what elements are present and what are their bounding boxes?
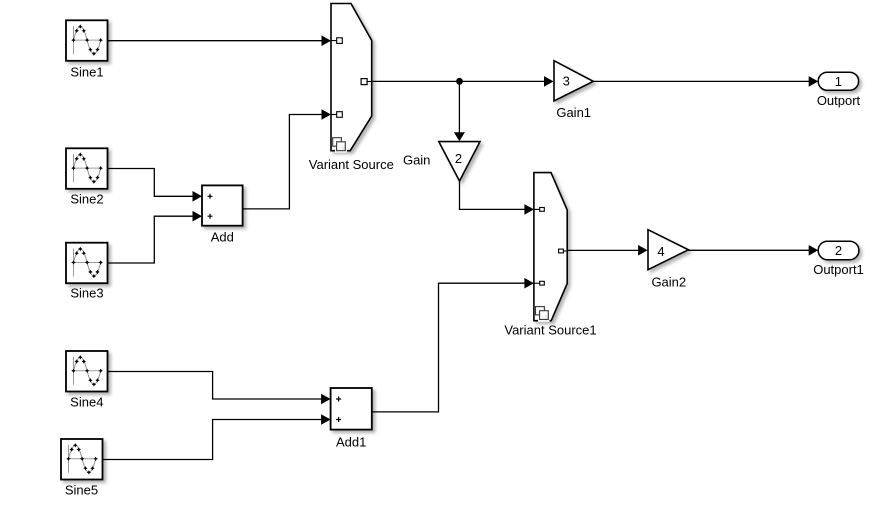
arrowhead into Variant Source1 in2 [524, 278, 534, 289]
svg-text:Sine5: Sine5 [65, 483, 98, 498]
wire Sine1 to Variant Source in1 [108, 40, 323, 42]
svg-text:Sine4: Sine4 [70, 394, 103, 409]
svg-text:Add1: Add1 [336, 435, 366, 450]
wire Sine3 to Add in2 [108, 216, 194, 263]
svg-text:2: 2 [835, 243, 842, 258]
wire Gain1 apex to Outport [593, 80, 809, 82]
block Add1 [331, 388, 372, 430]
arrowhead into Gain (down) [454, 132, 465, 141]
svg-text:Sine2: Sine2 [70, 191, 103, 206]
arrowhead into Variant Source in1 [322, 35, 332, 46]
wire Gain2 apex to Outport1 [688, 249, 810, 251]
svg-text:Variant Source1: Variant Source1 [504, 322, 596, 337]
arrowhead into Add in2 [193, 211, 203, 222]
arrowhead into Add1 in1 [321, 394, 331, 405]
wire Sine5 to Add1 in2 [103, 420, 323, 460]
svg-text:Sine1: Sine1 [70, 65, 103, 80]
block Add [202, 185, 243, 225]
variant badge of Variant Source [333, 138, 347, 153]
block Sine5 [61, 439, 103, 480]
wire junction down to Gain [458, 81, 460, 133]
svg-text:Gain: Gain [403, 153, 430, 168]
svg-text:3: 3 [563, 73, 570, 88]
svg-text:Variant Source: Variant Source [309, 157, 394, 172]
port in1 of Variant Source [331, 38, 342, 44]
wire Gain apex to Variant Source1 in1 [460, 181, 526, 209]
variant badge of Variant Source1 [536, 307, 550, 322]
block Sine3 [66, 243, 108, 284]
arrowhead into Gain2 [638, 245, 648, 256]
arrowhead into Add1 in2 [321, 414, 331, 425]
svg-text:Add: Add [211, 229, 234, 244]
block Variant Source [331, 4, 372, 153]
block Gain1 [554, 61, 593, 101]
port in2 of Variant Source [331, 112, 342, 118]
wire Variant Source out to Gain1 [372, 80, 545, 82]
svg-text:2: 2 [455, 151, 462, 166]
arrowhead into Gain1 [544, 76, 554, 87]
arrowhead into Variant Source1 in1 [524, 204, 534, 215]
arrowhead into Add in1 [193, 191, 203, 202]
svg-text:Outport1: Outport1 [813, 262, 864, 277]
arrowhead into Outport [809, 76, 819, 87]
svg-text:1: 1 [835, 74, 842, 89]
block Outport [818, 72, 858, 90]
junction node [456, 78, 463, 85]
block Gain (downward) [439, 142, 480, 181]
block Variant Source1 [534, 173, 567, 322]
block Gain2 [648, 230, 688, 270]
port in1 of Variant Source1 [534, 208, 544, 212]
wire Variant Source1 out to Gain2 [567, 249, 639, 251]
svg-text:Gain1: Gain1 [556, 105, 591, 120]
block Sine2 [66, 148, 108, 189]
svg-text:4: 4 [657, 244, 664, 259]
svg-text:Sine3: Sine3 [70, 286, 103, 301]
wire Sine4 to Add1 in1 [108, 372, 322, 400]
wire Add out to Variant Source in2 [243, 115, 323, 209]
arrowhead into Outport1 [809, 245, 819, 256]
arrowhead into Variant Source in2 [322, 109, 332, 120]
svg-text:Outport: Outport [817, 93, 861, 108]
wire Sine2 to Add in1 [108, 169, 194, 197]
wire Add1 out to Variant Source1 in2 [372, 283, 526, 412]
svg-text:Gain2: Gain2 [651, 275, 686, 290]
block Outport1 [818, 241, 859, 260]
block Sine1 [66, 20, 108, 61]
port in2 of Variant Source1 [534, 281, 544, 285]
port out of Variant Source [361, 79, 372, 85]
block Sine4 [66, 351, 108, 392]
port out of Variant Source1 [559, 249, 568, 253]
